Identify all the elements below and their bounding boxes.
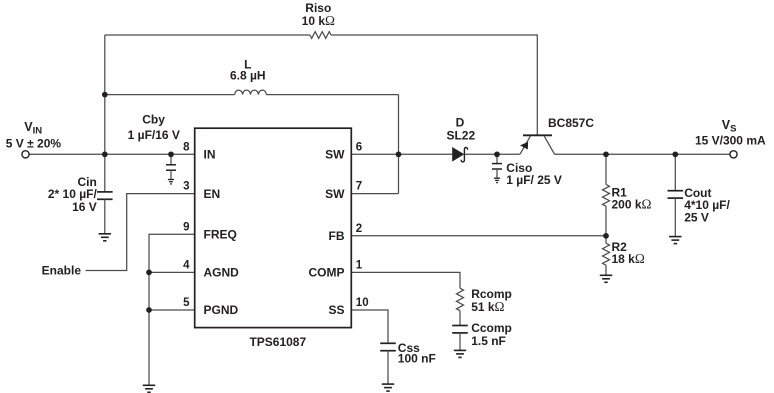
svg-text:EN: EN bbox=[204, 187, 221, 201]
svg-text:51 kΩ: 51 kΩ bbox=[471, 299, 504, 314]
svg-text:1 µF/ 25 V: 1 µF/ 25 V bbox=[506, 173, 562, 187]
svg-text:8: 8 bbox=[183, 141, 190, 153]
svg-text:5 V ± 20%: 5 V ± 20% bbox=[6, 136, 62, 150]
svg-text:Cby: Cby bbox=[142, 112, 165, 126]
svg-text:FREQ: FREQ bbox=[204, 227, 237, 241]
svg-text:6.8 µH: 6.8 µH bbox=[230, 69, 266, 83]
svg-text:Ccomp: Ccomp bbox=[471, 321, 512, 335]
svg-text:5: 5 bbox=[183, 297, 190, 309]
svg-text:IN: IN bbox=[204, 148, 216, 162]
svg-text:SS: SS bbox=[328, 303, 344, 317]
svg-text:2: 2 bbox=[356, 223, 362, 235]
svg-text:200 kΩ: 200 kΩ bbox=[612, 197, 652, 212]
svg-text:16 V: 16 V bbox=[72, 200, 97, 214]
svg-text:TPS61087: TPS61087 bbox=[249, 335, 306, 349]
svg-text:18 kΩ: 18 kΩ bbox=[612, 251, 645, 266]
svg-text:SW: SW bbox=[325, 187, 345, 201]
svg-text:100 nF: 100 nF bbox=[398, 351, 436, 365]
svg-text:25 V: 25 V bbox=[684, 210, 709, 224]
svg-text:6: 6 bbox=[356, 141, 362, 153]
svg-text:AGND: AGND bbox=[204, 266, 240, 280]
svg-text:PGND: PGND bbox=[204, 303, 239, 317]
svg-text:10 kΩ: 10 kΩ bbox=[302, 13, 335, 28]
svg-text:1.5 nF: 1.5 nF bbox=[471, 334, 506, 348]
svg-text:FB: FB bbox=[329, 229, 345, 243]
svg-text:1 µF/16 V: 1 µF/16 V bbox=[128, 128, 180, 142]
svg-text:9: 9 bbox=[183, 221, 189, 233]
svg-text:10: 10 bbox=[356, 297, 369, 309]
svg-text:SW: SW bbox=[325, 148, 345, 162]
svg-text:COMP: COMP bbox=[309, 266, 345, 280]
svg-text:3: 3 bbox=[183, 181, 189, 193]
svg-text:Rcomp: Rcomp bbox=[471, 287, 512, 301]
svg-text:BC857C: BC857C bbox=[548, 116, 594, 130]
svg-text:7: 7 bbox=[356, 181, 362, 193]
svg-text:D: D bbox=[456, 116, 465, 130]
svg-text:4: 4 bbox=[183, 260, 190, 272]
svg-text:SL22: SL22 bbox=[446, 129, 475, 143]
svg-text:Enable: Enable bbox=[42, 264, 82, 278]
svg-text:15 V/300 mA: 15 V/300 mA bbox=[695, 133, 766, 147]
svg-text:1: 1 bbox=[356, 260, 363, 272]
